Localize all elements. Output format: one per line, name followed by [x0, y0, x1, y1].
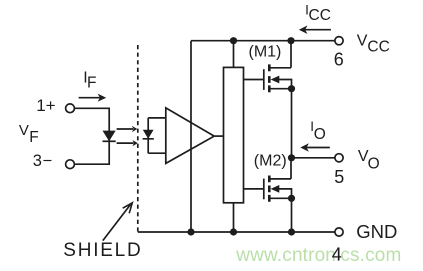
svg-text:F: F [87, 74, 96, 91]
svg-text:GND: GND [356, 221, 397, 242]
svg-text:(M2): (M2) [254, 153, 287, 170]
svg-text:5: 5 [334, 167, 344, 187]
svg-text:V: V [357, 33, 368, 50]
svg-text:CC: CC [309, 7, 331, 24]
svg-text:www.cntronics.com: www.cntronics.com [235, 245, 401, 266]
svg-text:6: 6 [334, 50, 344, 70]
svg-text:3−: 3− [33, 152, 53, 170]
svg-text:CC: CC [367, 39, 389, 56]
svg-text:O: O [314, 126, 326, 143]
svg-text:SHIELD: SHIELD [63, 240, 142, 261]
svg-text:(M1): (M1) [249, 44, 282, 61]
svg-text:O: O [368, 156, 380, 173]
svg-text:V: V [19, 122, 29, 139]
svg-text:F: F [29, 129, 38, 146]
svg-text:1+: 1+ [36, 96, 55, 115]
svg-text:4: 4 [332, 244, 342, 264]
